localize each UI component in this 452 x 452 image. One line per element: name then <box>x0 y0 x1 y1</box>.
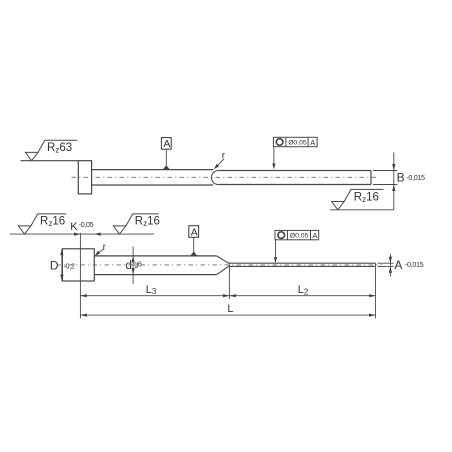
svg-text:Rz16: Rz16 <box>40 216 65 229</box>
svg-text:Ø0.05: Ø0.05 <box>288 140 307 147</box>
cone transition (bottom view) <box>217 256 229 275</box>
roughness symbol Rz16 (top view) <box>330 189 394 209</box>
svg-text:Rz16: Rz16 <box>354 192 379 205</box>
transition radius arc (top view) <box>212 171 219 185</box>
shaft section 2 (top view) <box>218 171 371 185</box>
dimension B (top view) <box>373 153 425 210</box>
radius label r (top view) <box>214 151 226 170</box>
dimension A (bottom view) <box>378 254 424 277</box>
shaft section 1 (top view) <box>92 170 214 185</box>
svg-text:-0,2: -0,2 <box>64 261 75 270</box>
feature control frame (top view) <box>272 137 317 169</box>
svg-text:Rz63: Rz63 <box>47 142 72 155</box>
shelf / dimension line K (bottom view) <box>10 220 154 319</box>
svg-text:A: A <box>394 258 402 272</box>
svg-text:B: B <box>397 170 405 184</box>
svg-text:A: A <box>163 138 170 150</box>
centerline (top view) <box>72 176 378 178</box>
feature control frame (bottom view) <box>274 230 319 263</box>
svg-text:Ø0.05: Ø0.05 <box>290 233 309 240</box>
svg-text:K: K <box>70 221 78 233</box>
roughness symbol Rz16 left (bottom view) <box>18 214 66 234</box>
centerline (bottom view) <box>57 264 383 266</box>
svg-text:r: r <box>222 151 226 162</box>
dimension L2 <box>229 284 375 297</box>
extension line at tip (bottom view) <box>375 267 377 319</box>
svg-text:A: A <box>312 231 317 240</box>
svg-text:r: r <box>103 242 107 253</box>
thin shaft section (bottom view) <box>229 263 376 266</box>
svg-text:A: A <box>310 138 315 147</box>
roughness symbol Rz16 right (bottom view) <box>113 214 160 234</box>
svg-text:d: d <box>126 260 132 272</box>
dimension d g6 (bottom view) <box>126 247 142 284</box>
dimension L <box>80 303 375 317</box>
dimension D (bottom view) <box>50 249 75 281</box>
datum A (bottom view) <box>189 226 199 256</box>
svg-text:g6: g6 <box>134 260 142 269</box>
svg-text:A: A <box>191 226 198 238</box>
extension line at cone (bottom view) <box>228 262 230 299</box>
head (bottom view) <box>62 249 94 281</box>
radius label r (bottom view) <box>95 242 107 256</box>
svg-text:L: L <box>227 303 233 315</box>
datum A (top view) <box>161 138 171 170</box>
dimension L3 <box>80 284 229 298</box>
svg-text:L2: L2 <box>298 284 309 296</box>
shaft d section (bottom view) <box>94 256 216 275</box>
svg-text:-0,015: -0,015 <box>406 173 425 182</box>
head (top view) <box>78 161 91 194</box>
roughness symbol Rz63 <box>21 140 79 160</box>
svg-text:D: D <box>50 259 59 273</box>
svg-text:Rz16: Rz16 <box>135 216 160 229</box>
svg-text:-0,015: -0,015 <box>405 260 424 269</box>
svg-text:L3: L3 <box>146 284 157 296</box>
svg-text:-0,05: -0,05 <box>79 220 94 229</box>
